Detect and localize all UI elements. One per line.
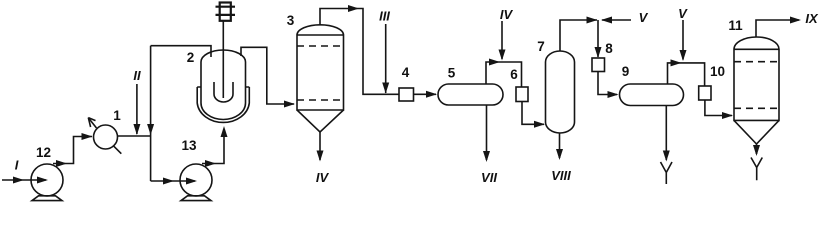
pump P12 base [32,196,62,201]
box 8 [592,58,605,72]
recirculation arrow [147,124,154,135]
reactor R2 shaft [222,21,224,98]
column C3 top line [320,9,399,95]
wire box6 to column7 [522,102,544,125]
svg-text:1: 1 [113,108,121,123]
reactor right nozzle to column3 [241,47,294,104]
column C11 bottom stem [756,144,758,154]
heat exchanger E1 circle [94,125,118,149]
arrow on overhead line [489,59,500,66]
column C3 seam [297,34,344,36]
stream V arrow (second) [680,50,687,61]
svg-text:I: I [15,158,19,173]
wire pump13 outlet [202,129,224,164]
drum V9 [620,84,684,106]
arrow into drum5 [426,91,437,98]
wire to pump13 [151,180,195,182]
stream III line [385,24,387,93]
arrow overhead to junction [587,17,598,24]
reactor R2 jacket [197,87,249,122]
column C11 dashed line bottom [734,107,779,109]
svg-text:IV: IV [316,170,330,185]
stream V line (second) [682,20,684,60]
stream II arrow [133,124,140,135]
reactor R2 motor [216,3,236,21]
reactor R2 jacket ticks [197,86,249,88]
recirculation downcomer [150,46,152,181]
box 10 [699,86,711,100]
wire box10 to column11 [705,100,732,116]
svg-text:5: 5 [448,66,456,81]
arrow pump12 outlet [56,160,67,167]
arrow drum9 bottom [663,151,670,162]
column C3 dashed line top [297,45,344,47]
svg-text:VIII: VIII [551,168,571,183]
heat exchanger E1 diagonal arrow [88,118,95,127]
arrow into column3 [284,101,295,108]
reactor R2 impeller [214,82,233,102]
drum V9 overhead line [668,63,705,86]
stream IV feed arrow [499,50,506,61]
arrow stream VIII [556,149,563,160]
svg-text:II: II [133,68,141,83]
svg-text:7: 7 [537,39,545,54]
stream I inner arrow [37,177,48,184]
svg-text:VII: VII [481,170,497,185]
column C3 outline [297,25,344,110]
box 4 [399,88,414,101]
drum V5 overhead line [486,62,522,87]
reactor left nozzle / recirc line [151,46,211,57]
arrow into box8 [595,47,602,58]
pump P12 circle [31,164,63,196]
svg-text:11: 11 [728,18,743,33]
column C11 overhead line [756,20,799,37]
drum V9 bottom stem [665,106,667,161]
wire pump12 outlet [53,137,92,164]
reactor R2 dome [201,50,246,62]
svg-text:V: V [678,6,688,21]
stream II line [136,84,138,134]
svg-text:IV: IV [500,7,514,22]
arrow into exchanger [82,133,93,140]
svg-text:9: 9 [622,64,630,79]
arrow pump13 inlet [163,178,174,185]
arrow into reactor bottom [221,126,228,137]
arrow into column7 [534,121,545,128]
wire box8 to drum9 [598,72,617,95]
reactor R2 body [201,62,246,120]
svg-text:6: 6 [510,67,518,82]
svg-text:4: 4 [402,65,410,80]
arrow into drum9 [608,91,619,98]
stream I line [2,179,46,181]
drain symbol drum9 [661,162,673,184]
drum V5 bottom stem [486,105,488,160]
pump P13 circle [180,164,212,196]
arrow column3 overhead [348,5,359,12]
wire box4 to drum5 [414,93,437,95]
column C11 seam [734,48,779,50]
svg-text:2: 2 [187,50,195,65]
arrow stream IV out [317,151,324,162]
heat exchanger E1 diagonal stub bottom-right [114,146,121,153]
arrow stream VII [483,151,490,162]
column C3 bottom stem [319,132,321,160]
stream V line (first) [602,19,631,21]
stream IV feed line [501,21,503,59]
svg-text:10: 10 [710,64,725,79]
svg-text:3: 3 [287,13,295,28]
svg-text:8: 8 [605,41,613,56]
svg-text:III: III [379,9,390,24]
box 6 [516,87,528,102]
svg-text:12: 12 [36,145,51,160]
arrow pump13 inner [186,178,197,185]
drum V5 [438,84,503,105]
arrow column11 bottom [753,145,760,156]
column C7 overhead line [560,20,597,51]
stream III arrow [382,83,389,94]
column C3 dashed line bottom [297,99,344,101]
column C3 cone [297,110,344,132]
column C11 dashed line top [734,61,779,63]
pump P13 base [181,196,211,201]
heat exchanger E1 diagonal stub top-left [89,118,97,128]
svg-text:IX: IX [805,11,819,26]
column C7 [546,51,575,133]
column C7 bottom stem [559,133,561,158]
junction downcomer to box8 [597,20,599,57]
column C11 cone [734,120,779,144]
arrow stream IX [790,17,801,24]
svg-text:13: 13 [181,138,197,153]
arrow on drum9 overhead [671,59,682,66]
arrow into column11 [722,112,733,119]
svg-text:V: V [639,10,649,25]
stream I arrow [13,177,24,184]
column C11 outline [734,37,779,120]
stream V arrow (first) [601,17,612,24]
drain symbol column11 [751,158,762,181]
wire exchanger to junction [118,135,151,137]
arrow pump13 outlet [205,160,216,167]
